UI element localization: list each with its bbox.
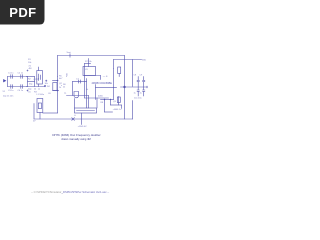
- svg-text:drawn manually using 4M: drawn manually using 4M: [61, 137, 90, 141]
- svg-text:4066B CD4066BE: 4066B CD4066BE: [92, 82, 113, 85]
- svg-text:+4066 1n: +4066 1n: [113, 109, 123, 111]
- svg-text:+ + E: + + E: [103, 76, 109, 78]
- svg-text:100n: 100n: [65, 73, 67, 77]
- svg-text:VDD: VDD: [142, 59, 147, 61]
- svg-text:C1 1n: C1 1n: [8, 73, 14, 75]
- svg-text:+GND 0V: +GND 0V: [78, 126, 88, 128]
- svg-text:10u 10u: 10u 10u: [134, 98, 142, 100]
- svg-text:-- C:\SPICE\TCSimulator_: -- C:\SPICE\TCSimulator_: [31, 190, 63, 194]
- svg-text:22p 1k 10n: 22p 1k 10n: [3, 96, 14, 98]
- svg-text:Vout: Vout: [67, 51, 72, 54]
- svg-text:4M: 4M: [29, 68, 32, 70]
- svg-text:C2 1n: C2 1n: [18, 73, 24, 75]
- svg-text:DH7b (4066) Osc Frequency doub: DH7b (4066) Osc Frequency doubler: [52, 133, 100, 137]
- svg-text:C4 1n: C4 1n: [18, 90, 24, 92]
- svg-text:R7 10k: R7 10k: [85, 61, 93, 63]
- svg-text:L1 100u: L1 100u: [37, 94, 45, 96]
- svg-text:C3 1n: C3 1n: [8, 90, 14, 92]
- svg-text:PDF: PDF: [9, 5, 36, 20]
- svg-text:_DSPbr2\HSPer Schematic Ver1.a: _DSPbr2\HSPer Schematic Ver1.asc --: [61, 190, 110, 194]
